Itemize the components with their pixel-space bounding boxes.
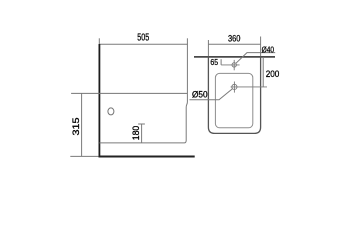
svg-text:360: 360: [228, 34, 241, 44]
svg-text:Ø40: Ø40: [262, 45, 275, 54]
dimension 65 tick: [220, 59, 222, 65]
floor line: [70, 155, 99, 157]
dimension 505 extension left: [98, 38, 100, 44]
dimension 180 tick: [138, 123, 145, 125]
label Ø40 leader: [236, 53, 275, 64]
floor line (under fixture, thick): [99, 156, 195, 158]
top view inner rim: [215, 73, 252, 127]
svg-text:65: 65: [210, 57, 218, 67]
svg-text:200: 200: [266, 69, 280, 79]
dimension 315 line: [81, 93, 83, 156]
svg-text:315: 315: [71, 118, 81, 136]
dimension 360 line: [208, 43, 260, 45]
top view outer rim: [208, 56, 260, 133]
side view front edge profile: [184, 44, 187, 142]
svg-text:505: 505: [137, 33, 149, 44]
side view back edge (wall side, thick): [98, 44, 100, 157]
dimension 200 line: [262, 57, 264, 87]
faucet hole crosshair: [221, 64, 240, 66]
label Ø50 leader: [190, 89, 233, 100]
svg-text:180: 180: [131, 126, 141, 141]
dimension 505 line: [99, 43, 188, 45]
dimension 180 line: [141, 124, 143, 143]
dimension 360 extension left: [207, 40, 209, 56]
side view bottom edge: [99, 142, 184, 144]
dimension 360 extension right: [260, 37, 262, 57]
drain hole crosshair: [231, 86, 267, 88]
svg-text:Ø50: Ø50: [192, 90, 208, 100]
dimension 505 extension right: [186, 38, 188, 44]
side view rim line with 315 extension: [71, 92, 187, 94]
wall line (top view, thick): [194, 56, 275, 58]
side view inlet hole: [108, 108, 114, 115]
